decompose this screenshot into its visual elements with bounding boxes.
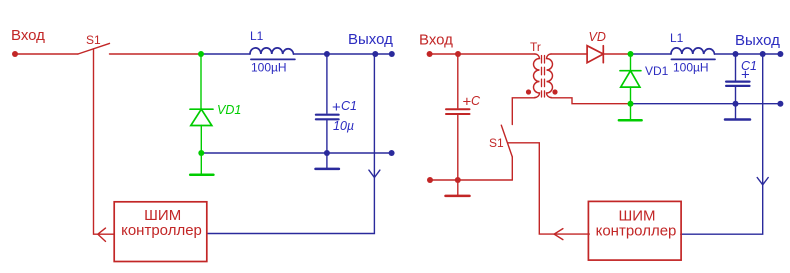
svg-text:+: + [741,67,750,84]
svg-text:VD1: VD1 [217,103,241,117]
wire switch bottom [511,157,513,180]
arrowhead feedback (down) [369,170,380,177]
inductor L1 (right) [671,48,715,54]
node C1 bottom [733,101,739,107]
svg-text:C: C [471,94,481,108]
wire bottom input rail [430,179,512,181]
svg-text:Вход: Вход [419,31,453,48]
node C1 top [324,51,330,57]
svg-text:L1: L1 [250,29,264,43]
svg-text:100µH: 100µH [673,61,709,75]
node junction switch/L1/VD1 [198,51,204,57]
wire junction to L1 [201,53,250,55]
node bottom junction (VD1/rail) [198,150,204,156]
svg-text:L1: L1 [670,31,684,45]
wire input to junction [430,53,458,55]
svg-text:VD1: VD1 [645,64,669,78]
ground (red) [446,195,470,198]
node cap C bottom junction [455,177,461,183]
wire control PWM to switch (right) [508,143,589,234]
node C1 bottom [324,150,330,156]
ground (green) [190,173,213,176]
wire junction to ground [200,153,202,174]
wire diode to junction [603,53,630,55]
inductor L1 [250,48,294,54]
node output - terminal [777,101,783,107]
switch S1 (right) lever [501,125,512,157]
svg-text:Tr: Tr [530,40,541,54]
arrowhead control left [554,229,563,240]
wire VD1 to bottom junction [630,87,632,104]
transformer phasing dot secondary [552,89,557,94]
capacitor C (input) [457,54,459,108]
svg-text:Выход: Выход [348,31,393,48]
wire bottom rail [201,152,391,154]
wire secondary bottom to output rail [551,98,631,104]
inductor core bar [671,58,715,60]
wire junction to ground [630,104,632,119]
wire junction to L1 [631,53,672,55]
input + terminal dot [427,51,433,57]
ground (blue) [316,168,339,171]
wire C1 to ground [735,104,737,119]
diode VD1 (right) [620,71,641,87]
wire primary bottom to switch [512,98,535,125]
diode VD1 (freewheeling) [190,109,213,125]
wire switch to junction [110,53,202,55]
svg-text:100µH: 100µH [251,61,287,75]
transformer phasing dot primary [526,89,531,94]
svg-text:VD: VD [589,30,606,44]
input - terminal dot [427,177,433,183]
svg-text:S1: S1 [86,33,101,47]
input + terminal dot [12,51,18,57]
ground (blue right) [725,118,750,121]
node junction VD/VD1/L1 [628,51,634,57]
wire L1 to output [715,53,781,55]
capacitor C1 (right) [735,54,737,80]
transformer Tr primary winding [534,54,540,98]
wire feedback to PWM [207,54,375,234]
node output + terminal [777,51,783,57]
arrowhead feedback down [757,178,768,185]
wire L1 to output [294,53,392,55]
wire control line PWM to switch [94,49,115,234]
svg-text:Вход: Вход [11,27,45,44]
wire junction down to VD1 [200,54,202,109]
wire C1 to ground [326,153,328,168]
node output + terminal [389,51,395,57]
svg-text:контроллер: контроллер [596,222,677,239]
node C1 top [733,51,739,57]
svg-text:контроллер: контроллер [121,222,202,239]
PWM controller box [114,202,207,262]
arrowhead control [98,228,106,241]
transformer core [541,56,543,98]
node output - terminal [389,150,395,156]
node input cap junction [455,51,461,57]
svg-text:+: + [332,99,341,116]
switch S1 lever [78,43,110,54]
node VD1 bottom junction [628,101,634,107]
node feedback tap [760,51,766,57]
diode VD [587,46,603,63]
node feedback tap [372,51,378,57]
svg-text:C1: C1 [341,99,357,113]
ground (green right) [619,119,642,122]
wire feedback to PWM (right) [681,54,763,234]
wire VD1 to bottom junction [200,126,202,154]
svg-text:10µ: 10µ [333,119,354,133]
inductor L1 core bar [251,58,295,60]
wire bottom output rail [631,103,780,105]
svg-text:Выход: Выход [735,32,780,49]
svg-text:S1: S1 [489,136,504,150]
transformer Tr secondary winding [547,54,553,98]
wire input to switch [15,53,78,55]
wire secondary top to diode [551,53,587,55]
capacitor C1 [326,54,328,113]
wire junction to VD1 [630,54,632,71]
wire junction to ground [457,180,459,195]
PWM controller box (right) [588,201,681,260]
wire junction to transformer [458,53,535,55]
